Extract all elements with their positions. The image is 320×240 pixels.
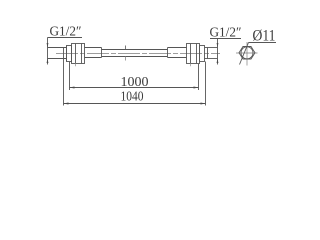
svg-text:Ø11: Ø11 [253,28,276,45]
svg-text:G1/2″: G1/2″ [50,25,82,40]
svg-text:1000: 1000 [121,75,149,90]
svg-text:1040: 1040 [121,90,144,105]
svg-text:G1/2″: G1/2″ [210,26,242,41]
